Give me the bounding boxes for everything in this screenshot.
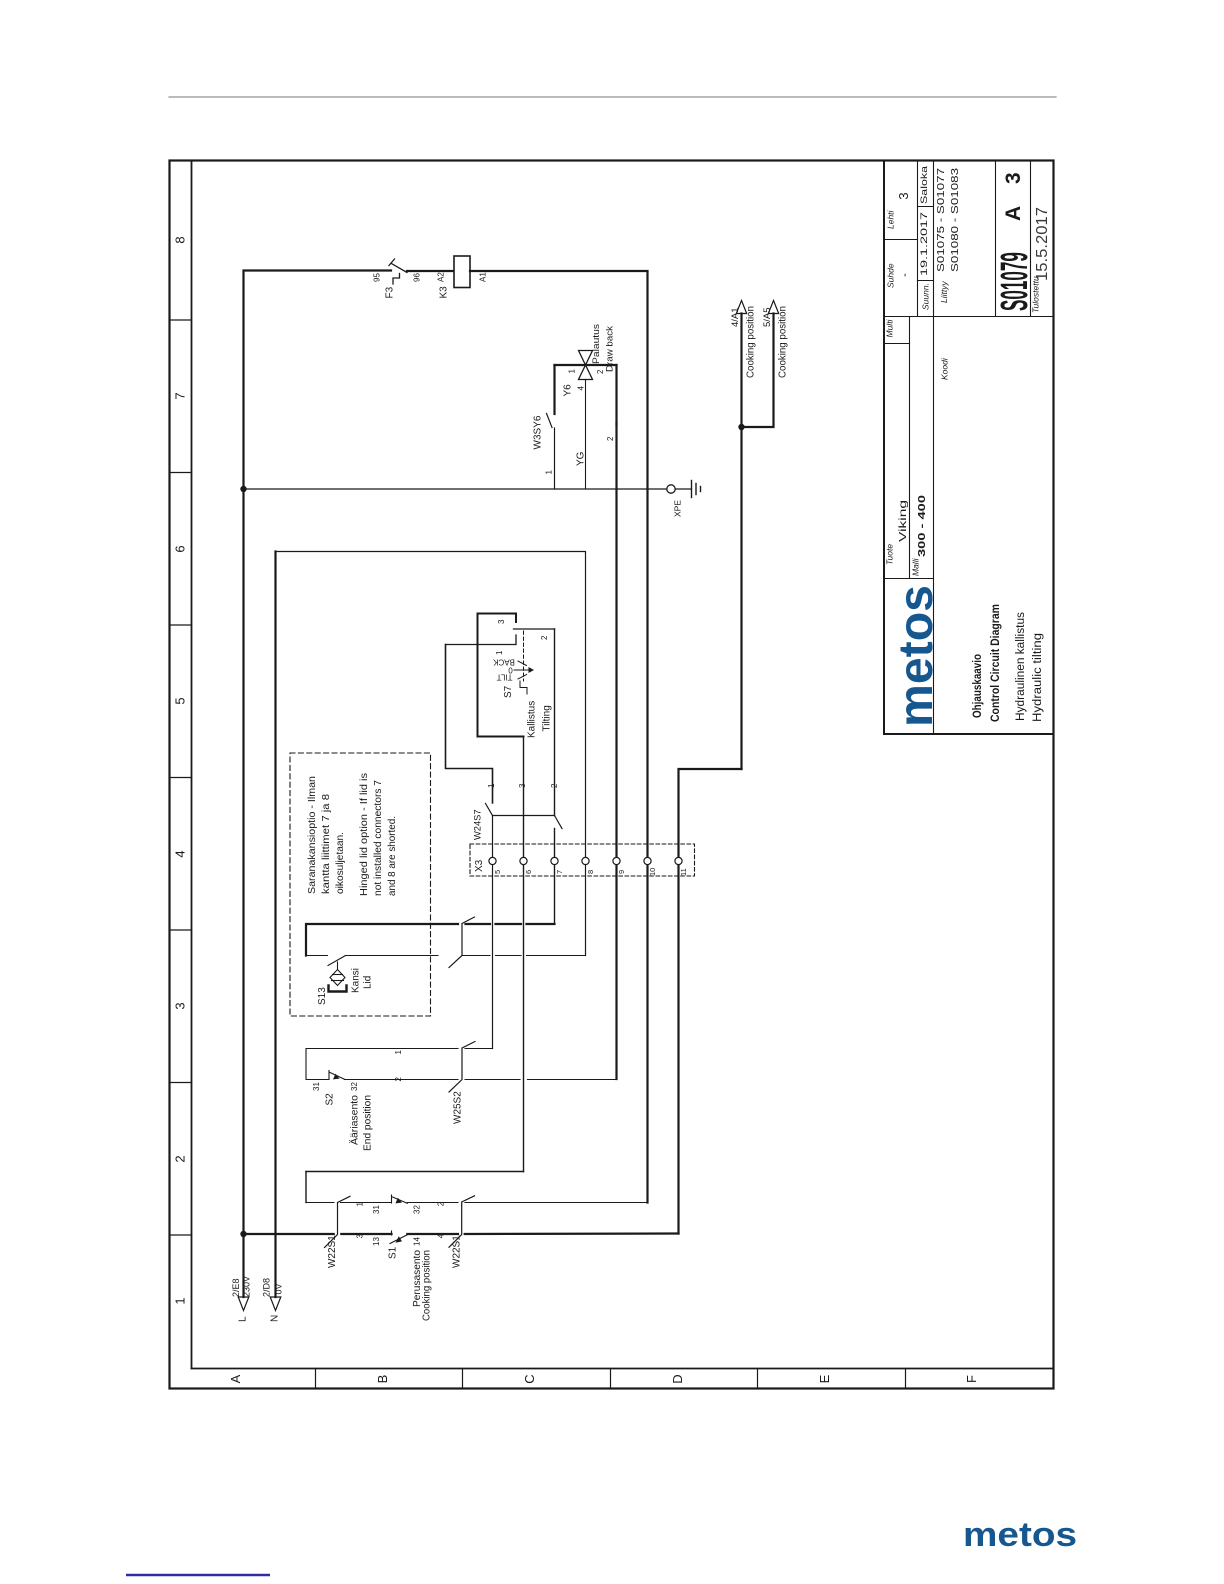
svg-text:5: 5 (173, 697, 188, 704)
label S7 terminals at connector (487, 783, 559, 788)
pin X3:10 (644, 857, 651, 864)
svg-text:End position: End position (363, 1095, 374, 1151)
svg-text:Lehti: Lehti (886, 209, 896, 229)
pin X3:7 (551, 857, 558, 864)
svg-text:Saloka: Saloka (919, 165, 930, 204)
footer link rule (126, 1574, 270, 1576)
svg-text:8: 8 (173, 236, 188, 243)
label S7 (492, 619, 549, 698)
label F3 (373, 273, 422, 299)
label S1 (356, 1201, 446, 1321)
note box dashed (290, 753, 431, 1016)
svg-text:XPE: XPE (673, 500, 683, 517)
svg-text:4: 4 (437, 1233, 446, 1238)
switch S13 lid sensor (306, 956, 346, 986)
svg-text:1: 1 (394, 1050, 403, 1055)
svg-text:95: 95 (373, 273, 382, 282)
wire S7 pin1 (446, 635, 517, 645)
contact W3SY6 (547, 414, 555, 490)
pin X3:5 (489, 857, 496, 864)
ground symbol (692, 481, 701, 498)
svg-text:D: D (670, 1374, 685, 1383)
fuse F3 thermal contact (389, 259, 407, 284)
svg-text:S1: S1 (388, 1246, 399, 1259)
bridge W25S2 (449, 1042, 475, 1093)
label W3SY6 (533, 415, 554, 474)
junction L to S1 rail (240, 1231, 246, 1237)
svg-text:Hydraulic tilting: Hydraulic tilting (1032, 633, 1044, 722)
wire N top link to pin8 (276, 552, 586, 858)
svg-text:F: F (964, 1375, 979, 1383)
wire S7-1 riser to X3:5 (446, 645, 493, 804)
pin X3:11 (675, 857, 682, 864)
svg-text:E: E (817, 1374, 832, 1383)
svg-text:N: N (270, 1315, 281, 1322)
svg-text:S2: S2 (325, 1093, 336, 1106)
source arrow N (270, 1297, 281, 1311)
label Y6 (563, 369, 606, 397)
svg-text:K3: K3 (439, 286, 450, 299)
bridge W24S7 (486, 804, 563, 829)
svg-text:Cooking position: Cooking position (422, 1250, 433, 1321)
bridge W22S1 right (449, 1196, 475, 1248)
svg-text:31: 31 (372, 1205, 381, 1214)
svg-text:32: 32 (350, 1082, 359, 1091)
wire pin8 lower (585, 865, 587, 956)
svg-text:X3: X3 (474, 859, 485, 872)
svg-text:A2: A2 (437, 272, 446, 282)
svg-text:7: 7 (173, 392, 188, 399)
svg-text:31: 31 (312, 1082, 321, 1091)
svg-text:Malli: Malli (911, 557, 921, 576)
junction L to PE bus (240, 486, 246, 492)
svg-text:Control Circuit Diagram: Control Circuit Diagram (990, 604, 1002, 722)
switch S7 wiring box (478, 614, 524, 737)
label N (262, 1278, 284, 1322)
wire S2 feed (306, 1049, 493, 1080)
svg-text:Koodi: Koodi (940, 357, 950, 380)
svg-text:13: 13 (372, 1237, 381, 1246)
svg-text:5: 5 (493, 870, 502, 874)
connector X3 (470, 844, 695, 876)
svg-text:F3: F3 (385, 286, 396, 298)
svg-text:2: 2 (173, 1155, 188, 1162)
source arrow L (238, 1297, 249, 1311)
svg-text:15.5.2017: 15.5.2017 (1034, 207, 1051, 281)
label L (231, 1276, 252, 1322)
switch S2 contact (329, 1071, 345, 1080)
svg-text:7: 7 (555, 870, 564, 874)
svg-text:96: 96 (413, 273, 422, 282)
svg-text:Viking: Viking (897, 500, 909, 542)
svg-text:S7: S7 (503, 685, 514, 698)
svg-text:11: 11 (679, 868, 688, 876)
svg-text:1: 1 (173, 1297, 188, 1304)
label K3 (437, 272, 488, 299)
wire S2 to pin9 (345, 1079, 617, 1081)
label Palautus / Draw back (591, 324, 616, 372)
svg-text:A: A (228, 1374, 243, 1383)
S7 mechanism (514, 631, 534, 694)
svg-text:S01075 - S01077: S01075 - S01077 (936, 167, 947, 272)
svg-text:3: 3 (896, 192, 911, 199)
svg-text:3: 3 (1002, 172, 1025, 184)
label 5/A5 (762, 306, 789, 378)
svg-text:A1: A1 (479, 272, 488, 282)
svg-text:3: 3 (518, 783, 527, 788)
bridge W25S2 upper (449, 917, 475, 968)
svg-text:Kansi: Kansi (351, 968, 362, 993)
svg-text:Cooking position: Cooking position (746, 306, 757, 378)
svg-text:14: 14 (413, 1237, 422, 1246)
svg-text:Lid: Lid (363, 976, 374, 989)
wire pin7 lower (554, 829, 556, 925)
svg-text:230V: 230V (242, 1276, 252, 1297)
svg-text:W22S1: W22S1 (452, 1235, 463, 1268)
svg-text:C: C (522, 1374, 537, 1383)
svg-text:2/D8: 2/D8 (262, 1278, 272, 1297)
switch S1 contact 13-14 (390, 1231, 407, 1244)
label Kallistus / Tilting (527, 701, 553, 738)
svg-text:oikosuljetaan.: oikosuljetaan. (335, 832, 346, 894)
svg-text:3: 3 (173, 1002, 188, 1009)
svg-text:A: A (1002, 206, 1025, 221)
svg-text:W3SY6: W3SY6 (533, 415, 544, 449)
wire K3 to pin10 drop (470, 271, 648, 1203)
wire XPE to ground (676, 488, 692, 490)
svg-text:1: 1 (495, 650, 504, 655)
svg-text:2/E8: 2/E8 (231, 1278, 241, 1297)
svg-text:B: B (375, 1375, 390, 1384)
svg-text:L: L (238, 1316, 249, 1322)
wire S1 row B (306, 1202, 648, 1204)
label S2 (312, 1050, 403, 1152)
svg-text:W25S2: W25S2 (453, 1091, 464, 1124)
svg-text:YG: YG (576, 451, 587, 466)
svg-text:5/A5: 5/A5 (762, 307, 773, 327)
svg-text:9: 9 (617, 870, 626, 874)
svg-text:4: 4 (577, 386, 586, 391)
wire S7 pin2 (514, 628, 555, 630)
svg-text:Y6: Y6 (563, 384, 574, 397)
pin number labels (493, 868, 688, 876)
wire L rail (244, 271, 392, 1298)
svg-text:metos: metos (890, 585, 943, 727)
wire pin11 riser (679, 769, 742, 1234)
svg-text:S01080 - S01083: S01080 - S01083 (950, 167, 961, 272)
svg-text:2: 2 (540, 635, 549, 640)
svg-text:-: - (899, 273, 911, 277)
svg-text:Hydraulinen kallistus: Hydraulinen kallistus (1015, 612, 1027, 721)
svg-text:Ääriasento: Ääriasento (349, 1095, 361, 1145)
svg-text:Ohjauskaavio: Ohjauskaavio (972, 654, 984, 718)
wire S7-2 riser to X3:7 (554, 629, 556, 816)
svg-text:Palautus: Palautus (591, 324, 602, 364)
note text finnish (307, 776, 346, 894)
svg-text:Draw back: Draw back (605, 326, 616, 372)
label S13 (317, 968, 374, 1005)
svg-text:19.1.2017: 19.1.2017 (919, 212, 930, 276)
junction 4/A1 5/A5 (738, 424, 744, 430)
label 4/A1 (730, 306, 757, 378)
svg-text:6: 6 (173, 545, 188, 552)
svg-text:3: 3 (356, 1234, 365, 1239)
svg-text:Tilting: Tilting (542, 705, 553, 731)
wire N rail (274, 552, 276, 1298)
pin X3:6 (520, 857, 527, 864)
wire lid return (346, 955, 586, 957)
svg-text:1: 1 (545, 470, 554, 475)
svg-text:not installed connectors 7: not installed connectors 7 (373, 780, 384, 896)
svg-text:3: 3 (497, 619, 506, 624)
svg-text:Tuote: Tuote (885, 544, 895, 565)
wire S1 row A from X3:6 (306, 1172, 524, 1203)
svg-text:W24S7: W24S7 (473, 810, 483, 841)
note text english (359, 773, 398, 896)
bridge W22S1 left (325, 1196, 351, 1247)
svg-text:300 - 400: 300 - 400 (916, 495, 928, 557)
svg-text:1: 1 (568, 369, 577, 374)
wire pin9 Y6 to X3 (615, 424, 617, 1079)
wire F3 to K3 (407, 270, 454, 272)
svg-text:Suhde: Suhde (886, 263, 896, 288)
svg-text:8: 8 (586, 870, 595, 874)
svg-text:W22S1: W22S1 (327, 1235, 338, 1268)
svg-text:4: 4 (173, 850, 188, 857)
svg-text:1: 1 (487, 783, 496, 788)
terminal XPE (667, 485, 675, 493)
svg-text:4/A1: 4/A1 (730, 307, 741, 327)
switch S1 contact 31-32 (392, 1195, 408, 1203)
svg-text:0V: 0V (274, 1283, 284, 1294)
svg-text:Hinged lid option - If lid is: Hinged lid option - If lid is (359, 773, 370, 896)
wire pin5 lower (492, 816, 494, 1049)
pin X3:9 (613, 857, 620, 864)
wire S7 common riser to X3:6 (523, 737, 525, 1172)
contactor coil K3 (454, 256, 470, 288)
wire S1 row C rail (244, 1232, 679, 1235)
svg-text:1: 1 (356, 1202, 365, 1207)
svg-text:kantta liittimet 7 ja 8: kantta liittimet 7 ja 8 (321, 794, 332, 894)
arrow 4/A1 cooking position (740, 314, 742, 770)
svg-text:Kallistus: Kallistus (527, 701, 538, 738)
svg-text:S13: S13 (317, 987, 328, 1005)
svg-text:Multi: Multi (885, 318, 895, 337)
wire lid rail (306, 924, 555, 956)
wire YG valve return (585, 380, 587, 490)
svg-text:2: 2 (437, 1201, 446, 1206)
solenoid valve Y6 (555, 365, 617, 424)
pin X3:8 (582, 857, 589, 864)
svg-text:Suunn.: Suunn. (921, 283, 931, 310)
svg-text:BACK: BACK (492, 658, 514, 667)
svg-text:Saranakansioptio - Ilman: Saranakansioptio - Ilman (307, 776, 318, 894)
svg-text:6: 6 (524, 870, 533, 874)
svg-text:Liittyy: Liittyy (939, 281, 949, 303)
svg-text:32: 32 (413, 1205, 422, 1214)
svg-text:10: 10 (648, 868, 657, 876)
title block (884, 161, 1054, 735)
PE bus wire (244, 488, 667, 490)
svg-text:Cooking position: Cooking position (778, 306, 789, 378)
arrow 5/A5 cooking position (742, 314, 774, 428)
svg-text:2: 2 (606, 436, 615, 441)
svg-text:2: 2 (550, 783, 559, 788)
svg-text:and 8 are shorted.: and 8 are shorted. (387, 816, 398, 896)
